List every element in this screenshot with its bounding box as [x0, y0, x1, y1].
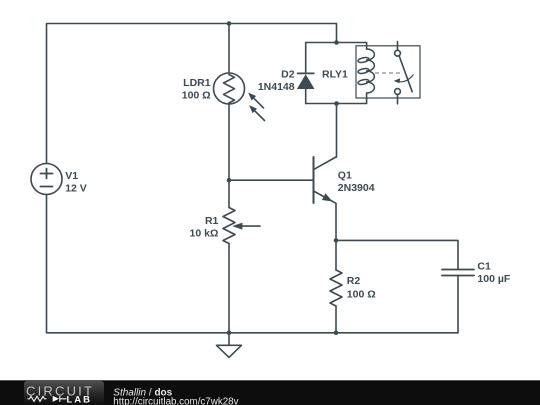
svg-text:LAB: LAB	[67, 394, 93, 405]
svg-text:100 Ω: 100 Ω	[347, 288, 376, 300]
svg-text:1N4148: 1N4148	[258, 81, 295, 93]
svg-text:100 µF: 100 µF	[477, 273, 510, 285]
svg-text:LDR1: LDR1	[183, 77, 211, 89]
svg-text:2N3904: 2N3904	[338, 182, 375, 194]
svg-text:V1: V1	[65, 170, 78, 182]
svg-text:100 Ω: 100 Ω	[182, 89, 211, 101]
svg-text:R2: R2	[347, 275, 361, 287]
svg-text:Q1: Q1	[338, 170, 352, 182]
svg-text:RLY1: RLY1	[322, 69, 348, 81]
svg-text:D2: D2	[281, 69, 295, 81]
svg-text:http://circuitlab.com/c7wk28v: http://circuitlab.com/c7wk28v	[113, 396, 238, 405]
svg-text:10 kΩ: 10 kΩ	[190, 227, 219, 239]
svg-text:R1: R1	[205, 215, 219, 227]
svg-text:12 V: 12 V	[65, 183, 87, 195]
svg-text:C1: C1	[477, 261, 491, 273]
